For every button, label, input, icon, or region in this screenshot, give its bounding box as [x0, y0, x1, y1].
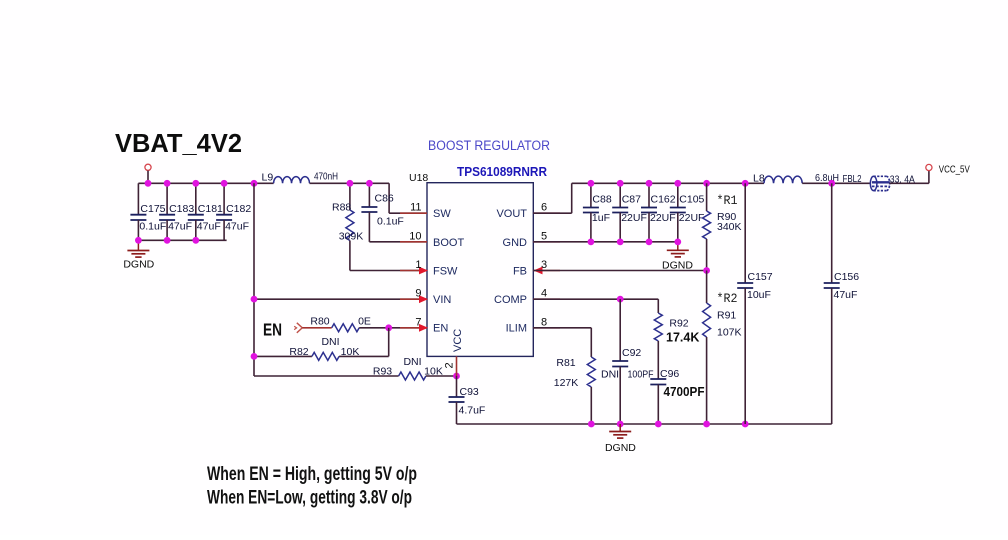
wire FBL2 to VCC_5V: [890, 182, 929, 184]
svg-text:22UF: 22UF: [650, 212, 676, 224]
svg-text:7: 7: [415, 316, 421, 328]
svg-text:U18: U18: [409, 172, 428, 184]
svg-text:R81: R81: [556, 357, 575, 369]
svg-text:3: 3: [541, 259, 547, 271]
node VIN tap: [251, 296, 258, 303]
resistor R93: [254, 375, 399, 377]
capacitor C181: [195, 183, 197, 214]
svg-text:10: 10: [409, 230, 421, 242]
svg-text:107K: 107K: [717, 327, 742, 339]
svg-text:470nH: 470nH: [314, 171, 338, 183]
svg-text:C87: C87: [622, 194, 641, 206]
wire L9 to SW: [310, 182, 390, 184]
svg-text:17.4K: 17.4K: [666, 331, 699, 345]
wire input ground bus: [138, 239, 226, 241]
wire VOUT to top rail: [533, 212, 571, 214]
node bottom bus junctions: [588, 421, 595, 428]
svg-text:DNI: DNI: [601, 369, 619, 381]
pin 5 GND: [533, 241, 560, 243]
svg-text:22UF: 22UF: [621, 212, 647, 224]
svg-text:COMP: COMP: [494, 294, 527, 306]
wire GND rail: [533, 241, 678, 243]
svg-text:VIN: VIN: [433, 294, 451, 306]
svg-text:DNI: DNI: [321, 336, 339, 348]
capacitor C156: [831, 183, 833, 283]
svg-text:C175: C175: [140, 203, 165, 215]
svg-text:0.1uF: 0.1uF: [377, 216, 404, 228]
terminal VCC_5V: [926, 164, 932, 170]
svg-text:6.8uH: 6.8uH: [815, 172, 839, 184]
resistor R81: [533, 327, 591, 329]
svg-text:DGND: DGND: [605, 442, 636, 454]
svg-text:47uF: 47uF: [225, 221, 249, 233]
capacitor C175: [137, 183, 139, 214]
wire top output rail: [572, 182, 764, 184]
node FB junction: [703, 267, 710, 274]
svg-text:TPS61089RNRR: TPS61089RNRR: [457, 165, 547, 179]
capacitor C87: [619, 183, 621, 207]
svg-text:GND: GND: [503, 237, 528, 249]
svg-text:C157: C157: [748, 271, 773, 283]
svg-text:R91: R91: [717, 310, 736, 322]
svg-text:340K: 340K: [717, 221, 742, 233]
wire FB line: [533, 270, 706, 272]
pin 6 VOUT: [533, 212, 560, 214]
svg-text:4: 4: [541, 288, 547, 300]
svg-text:VBAT_4V2: VBAT_4V2: [115, 128, 242, 158]
svg-text:VOUT: VOUT: [496, 208, 527, 220]
svg-text:L8: L8: [753, 173, 765, 185]
svg-text:9: 9: [415, 288, 421, 300]
wire L8 to FBL2: [802, 182, 871, 184]
pin 2 VCC: [456, 356, 458, 376]
pin 3 FB: [533, 270, 560, 272]
svg-text:6: 6: [541, 202, 547, 214]
inductor L9: [274, 177, 310, 184]
svg-text:10K: 10K: [341, 346, 360, 358]
capacitor C92: [619, 299, 621, 361]
svg-text:1: 1: [415, 259, 421, 271]
resistor R92: [657, 299, 659, 313]
svg-text:R88: R88: [332, 202, 351, 214]
svg-text:100PF: 100PF: [628, 369, 654, 381]
node EN junction: [385, 324, 392, 331]
svg-text:22UF: 22UF: [679, 212, 705, 224]
svg-text:ILIM: ILIM: [506, 323, 527, 335]
capacitor C88: [590, 183, 592, 207]
wire VIN feed: [254, 298, 427, 300]
capacitor C182: [223, 183, 225, 214]
wire C86 to BOOT: [369, 241, 427, 243]
resistor R91: [706, 271, 708, 304]
svg-text:127K: 127K: [554, 377, 579, 389]
svg-text:L9: L9: [262, 172, 274, 184]
svg-text:4700PF: 4700PF: [664, 385, 705, 399]
svg-text:309K: 309K: [339, 231, 364, 243]
svg-text:47uF: 47uF: [168, 221, 192, 233]
port EN arrow: [297, 323, 303, 333]
wire R88 to FSW: [350, 270, 427, 272]
resistor R88: [349, 183, 351, 210]
node COMP junction: [617, 296, 624, 303]
wire top input bus: [138, 182, 273, 184]
pin 11 SW: [400, 212, 427, 214]
node output cap junctions: [588, 180, 595, 187]
svg-text:C105: C105: [679, 194, 704, 206]
svg-text:C92: C92: [622, 347, 641, 359]
svg-text:*R2: *R2: [717, 292, 738, 306]
node VCC junction: [453, 373, 460, 380]
pin 9 VIN: [400, 298, 427, 300]
pin 8 ILIM: [533, 327, 560, 329]
svg-text:5: 5: [541, 230, 547, 242]
svg-text:47uF: 47uF: [197, 221, 221, 233]
capacitor C86: [368, 183, 370, 207]
svg-text:BOOST REGULATOR: BOOST REGULATOR: [428, 138, 550, 153]
svg-text:0E: 0E: [358, 316, 371, 328]
terminal VBAT_4V2: [145, 164, 151, 170]
wire VIN rail vertical: [253, 183, 255, 376]
svg-text:1uF: 1uF: [592, 212, 610, 224]
ground DGND output: [677, 242, 679, 250]
pin 7 EN: [400, 327, 427, 329]
svg-text:FB: FB: [513, 266, 527, 278]
capacitor C162: [648, 183, 650, 207]
node R82 tap: [251, 353, 258, 360]
pin 1 FSW: [400, 270, 427, 272]
wire bottom ground bus: [457, 423, 832, 425]
resistor R82: [254, 355, 312, 357]
svg-text:11: 11: [410, 202, 421, 214]
capacitor C157: [744, 183, 746, 283]
svg-text:C183: C183: [169, 203, 194, 215]
svg-text:*R1: *R1: [717, 194, 738, 208]
ground DGND input: [137, 240, 139, 250]
resistor R90: [706, 183, 708, 211]
svg-text:2: 2: [444, 362, 456, 368]
svg-text:DNI: DNI: [403, 356, 421, 368]
node top rail junctions: [703, 180, 710, 187]
svg-text:C88: C88: [592, 194, 611, 206]
svg-text:VCC_5V: VCC_5V: [939, 164, 970, 176]
svg-text:DGND: DGND: [123, 259, 154, 271]
svg-text:FBL2: FBL2: [843, 173, 862, 185]
svg-text:R80: R80: [310, 316, 329, 328]
svg-text:10uF: 10uF: [747, 289, 771, 301]
svg-text:8: 8: [541, 316, 547, 328]
capacitor C93: [456, 376, 458, 397]
node junctions input bus: [145, 180, 152, 187]
svg-text:47uF: 47uF: [834, 289, 858, 301]
svg-text:0.1uF: 0.1uF: [139, 221, 166, 233]
pin 4 COMP: [533, 298, 560, 300]
svg-text:R82: R82: [289, 346, 308, 358]
inductor L8: [764, 176, 802, 183]
svg-text:R92: R92: [669, 318, 688, 330]
svg-text:C162: C162: [651, 194, 676, 206]
svg-text:VCC: VCC: [452, 329, 464, 352]
capacitor C96: [650, 378, 666, 380]
svg-text:R93: R93: [373, 366, 392, 378]
svg-text:C96: C96: [660, 368, 679, 380]
wire COMP line: [533, 298, 658, 300]
svg-text:C93: C93: [460, 386, 479, 398]
svg-text:When EN=Low, getting 3.8V o/p: When EN=Low, getting 3.8V o/p: [207, 488, 412, 509]
svg-text:FSW: FSW: [433, 266, 458, 278]
resistor R80: [302, 327, 331, 329]
node R88/C86 top junctions: [347, 180, 354, 187]
svg-text:C156: C156: [834, 271, 859, 283]
svg-text:When EN = High, getting 5V o/: When EN = High, getting 5V o/p: [207, 464, 417, 485]
capacitor C183: [166, 183, 168, 214]
capacitor C105: [677, 183, 679, 207]
svg-text:BOOT: BOOT: [433, 237, 464, 249]
svg-text:C182: C182: [226, 203, 251, 215]
svg-text:SW: SW: [433, 208, 451, 220]
svg-text:10K: 10K: [424, 366, 443, 378]
ground DGND bottom: [619, 424, 621, 431]
svg-text:EN: EN: [263, 320, 282, 340]
op-amp U1 IC U18 TPS61089RNRR box: [427, 183, 533, 357]
svg-text:EN: EN: [433, 323, 448, 335]
pin 10 BOOT: [400, 241, 427, 243]
svg-text:C181: C181: [198, 203, 223, 215]
svg-text:4.7uF: 4.7uF: [459, 405, 486, 417]
svg-text:C86: C86: [375, 193, 394, 205]
